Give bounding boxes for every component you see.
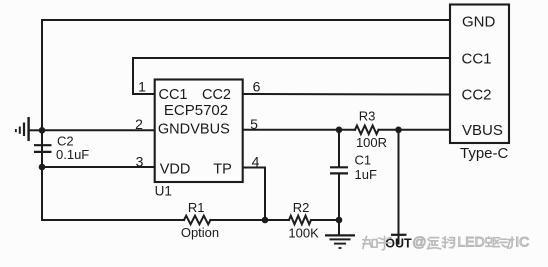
svg-text:@: @	[412, 233, 426, 249]
svg-text:R1: R1	[188, 200, 205, 215]
svg-text:Option: Option	[181, 225, 219, 240]
svg-text:CC1: CC1	[462, 50, 492, 67]
svg-text:100K: 100K	[288, 225, 319, 240]
svg-text:5: 5	[250, 116, 258, 132]
svg-text:C1: C1	[355, 153, 372, 168]
svg-text:VBUS: VBUS	[462, 122, 503, 139]
svg-text:CC2: CC2	[462, 86, 492, 103]
svg-text:VBUS: VBUS	[190, 121, 230, 137]
svg-text:Type-C: Type-C	[460, 145, 509, 162]
svg-text:U1: U1	[155, 184, 172, 199]
svg-text:2: 2	[135, 116, 143, 132]
svg-text:VDD: VDD	[160, 161, 191, 177]
svg-text:4: 4	[252, 153, 260, 169]
svg-text:R2: R2	[293, 200, 310, 215]
svg-text:0.1uF: 0.1uF	[56, 147, 89, 162]
svg-text:100R: 100R	[356, 135, 387, 150]
svg-text:GND: GND	[158, 121, 190, 137]
svg-text:3: 3	[136, 153, 144, 169]
svg-text:CC1: CC1	[158, 87, 187, 103]
svg-text:GND: GND	[462, 13, 496, 30]
svg-text:1: 1	[138, 79, 146, 95]
svg-text:TP: TP	[213, 161, 232, 177]
svg-text:CC2: CC2	[202, 87, 231, 103]
svg-text:6: 6	[253, 79, 261, 95]
svg-text:ECP5702: ECP5702	[164, 102, 228, 119]
svg-text:1uF: 1uF	[355, 167, 377, 182]
svg-text:LED: LED	[458, 233, 485, 249]
svg-text:R3: R3	[359, 109, 376, 124]
svg-text:IC: IC	[515, 233, 529, 249]
